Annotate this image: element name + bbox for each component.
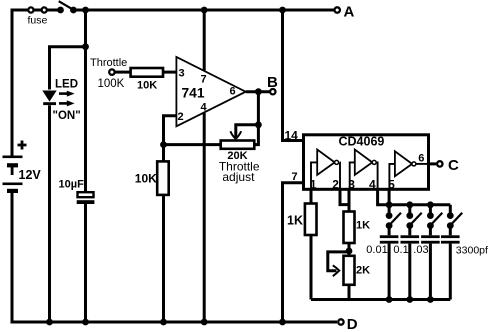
wire op-amp pin 4 to ground rail	[203, 113, 206, 323]
resistor R3 10K vertical	[135, 161, 169, 195]
wire C4 to sub rail	[427, 244, 434, 303]
node 10uF ground junction	[82, 319, 89, 326]
label pin 7	[292, 171, 298, 183]
svg-text:10K: 10K	[135, 172, 157, 186]
wire R6 to sub ground rail	[348, 285, 351, 300]
node output junction	[255, 88, 262, 95]
battery B1 12V	[3, 141, 42, 194]
svg-text:4: 4	[369, 177, 376, 191]
wire right rail down to pin 14	[283, 10, 303, 141]
wire vertical x85 from top rail to 10uF cap	[84, 10, 87, 191]
wire op-amp pin 7 to top rail	[203, 10, 206, 71]
wire output down to 20K right terminal	[254, 92, 258, 145]
svg-text:adjust: adjust	[222, 170, 255, 184]
svg-text:14: 14	[285, 129, 299, 143]
node R5 R6 junction	[346, 248, 353, 255]
terminal Throttle input	[90, 57, 127, 90]
wire R5 to R6	[348, 243, 351, 256]
wire op-amp output to terminal B	[246, 90, 270, 93]
resistor R1 10K	[131, 68, 163, 92]
label pin 14	[285, 129, 299, 143]
wire C5 to sub rail	[449, 244, 452, 300]
wire left rail	[11, 9, 14, 157]
wire 10uF to ground rail	[84, 204, 87, 323]
svg-text:0.1: 0.1	[393, 244, 408, 256]
wire op-amp pin 2 to feedback node	[164, 116, 177, 145]
svg-text:Throttle: Throttle	[90, 57, 127, 69]
svg-text:2K: 2K	[356, 265, 370, 277]
svg-text:"ON": "ON"	[53, 110, 81, 122]
wire throttle to R1	[115, 71, 131, 74]
wire R1 to op-amp pin 3	[163, 71, 176, 74]
potentiometer R2 20K	[219, 141, 260, 185]
capacitor C3 0.1	[393, 226, 419, 256]
wire R3 to ground rail	[162, 195, 165, 323]
svg-text:741: 741	[182, 86, 205, 101]
node top right rail junction	[279, 7, 286, 14]
wire top rail	[12, 9, 283, 12]
svg-text:12V: 12V	[19, 168, 42, 182]
svg-text:3300pf: 3300pf	[456, 245, 488, 257]
svg-text:1K: 1K	[356, 220, 370, 232]
wire sub ground rail	[311, 298, 450, 301]
inverter U2A	[311, 150, 340, 190]
svg-text:4: 4	[201, 102, 208, 114]
terminal D	[338, 316, 358, 332]
node pin7 top rail junction	[201, 7, 208, 14]
svg-text:7: 7	[292, 171, 298, 183]
switch S4	[427, 205, 442, 229]
resistor R4 1K	[287, 204, 317, 236]
wire LED cathode to ground rail	[48, 105, 51, 323]
wire cap bus	[389, 203, 450, 206]
svg-text:10K: 10K	[137, 80, 157, 92]
op-amp U1 741	[176, 57, 245, 126]
wire R4 to sub ground rail	[310, 235, 313, 300]
svg-text:2: 2	[178, 111, 184, 123]
node junction LED tee	[82, 43, 89, 50]
wire pin 5 to cap bus	[388, 189, 391, 205]
svg-text:6: 6	[418, 153, 424, 165]
wire pin 2 to pin 3 join	[340, 189, 349, 205]
switch S2	[386, 205, 401, 229]
svg-text:6: 6	[230, 86, 236, 98]
svg-text:10µF: 10µF	[59, 179, 85, 191]
node bus branch3 junction	[427, 201, 434, 208]
svg-text:0.01: 0.01	[366, 244, 387, 256]
node LED ground junction	[46, 319, 53, 326]
node pin4 ground junction	[201, 319, 208, 326]
wire pin 3 to R5	[348, 189, 351, 212]
terminal A	[283, 4, 355, 21]
node feedback junction	[160, 141, 167, 148]
wire pin 7 of CD4069 to ground rail	[283, 183, 303, 323]
wire feedback node to 20K pot	[164, 143, 222, 146]
LED D1	[42, 79, 78, 106]
wire battery bottom to ground rail	[11, 193, 14, 324]
terminal C	[430, 157, 459, 174]
wire 20K wiper	[230, 125, 258, 139]
terminal B	[267, 74, 278, 94]
wire bottom ground rail	[11, 321, 338, 324]
svg-text:fuse: fuse	[28, 15, 48, 27]
node bus branch2 junction	[406, 201, 413, 208]
svg-text:.03: .03	[413, 244, 428, 256]
wire pin 1 to R4	[310, 189, 313, 204]
svg-text:C: C	[448, 157, 459, 174]
node bus pin5 junction	[386, 201, 393, 208]
svg-text:B: B	[267, 74, 278, 91]
node R3 ground junction	[160, 319, 167, 326]
svg-text:D: D	[347, 316, 358, 332]
capacitor C5 3300pf	[441, 226, 488, 257]
switch S1	[57, 1, 77, 13]
svg-text:7: 7	[201, 74, 207, 86]
labels CD4069 pins	[310, 153, 425, 192]
capacitor C4 .03	[413, 226, 439, 256]
fuse F1	[28, 7, 48, 26]
wire pin 4 to cap bus	[378, 189, 389, 205]
wire feedback node to R3	[162, 145, 165, 162]
inverter U2B	[350, 150, 378, 190]
svg-text:CD4069: CD4069	[339, 135, 385, 149]
svg-text:3: 3	[179, 68, 185, 80]
switch S3	[406, 205, 421, 229]
node wiper junction	[255, 121, 262, 128]
node CD4069 ground junction	[279, 319, 286, 326]
IC U2 CD4069 box	[304, 135, 429, 190]
switch S5	[447, 205, 462, 229]
capacitor C1 10uF	[59, 179, 95, 205]
wire C3 to sub rail	[406, 244, 413, 303]
wire LED branch tee	[50, 47, 86, 90]
inverter U2C	[389, 151, 430, 189]
LED arrows	[59, 91, 75, 107]
svg-text:2: 2	[332, 177, 339, 191]
node junction top at x85	[82, 7, 89, 14]
svg-text:100K: 100K	[98, 78, 125, 90]
capacitor C2 0.01	[366, 226, 398, 256]
svg-text:A: A	[344, 4, 355, 21]
svg-text:1K: 1K	[287, 214, 303, 228]
wire R6 wiper loop	[328, 252, 349, 276]
resistor R5 1K	[344, 212, 371, 244]
potentiometer R6 2K	[344, 256, 371, 285]
wire C2 to sub rail	[386, 244, 393, 303]
label "ON"	[53, 110, 81, 122]
svg-text:LED: LED	[55, 79, 78, 91]
